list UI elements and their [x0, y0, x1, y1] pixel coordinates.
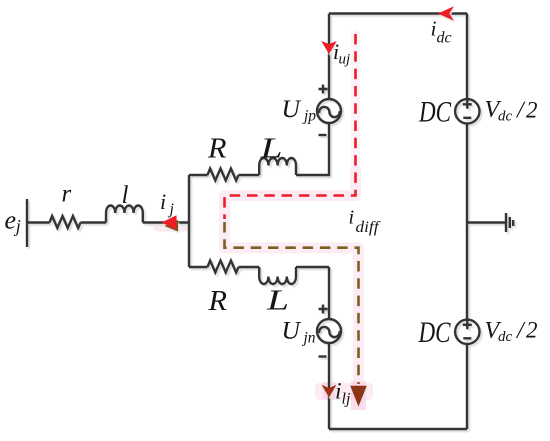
wire: right rail middle [466, 124, 468, 320]
DC source lower [455, 320, 479, 344]
svg-text:jn: jn [302, 330, 316, 347]
svg-text:i: i [160, 189, 166, 214]
AC source U_jp [317, 99, 341, 123]
svg-text:R: R [207, 134, 227, 165]
wire: r to l [81, 221, 107, 223]
wire: U_jn to bottom rail [328, 343, 330, 429]
wire: top rail [329, 12, 467, 14]
plus terminal mark of U_jn [319, 305, 328, 314]
current arrow i_diff at i_j node (brown, pointing left) [165, 220, 179, 232]
svg-text:L: L [259, 133, 282, 164]
svg-text:/: / [515, 98, 526, 124]
svg-text:j: j [14, 216, 21, 236]
wire: L upper to U_jp minus terminal [296, 123, 329, 175]
wire: U_jn up to lower arm [328, 267, 330, 319]
wire: right rail top down to DC source [466, 14, 468, 100]
wire: branch node to resistor R upper [189, 174, 208, 176]
wire: l to branch node [143, 221, 189, 223]
svg-text:dc: dc [498, 109, 513, 125]
svg-text:dc: dc [437, 30, 452, 47]
inductor L (lower arm) [259, 267, 296, 284]
svg-text:DC: DC [418, 316, 452, 349]
current arrow i_uj (pointing down) [321, 41, 336, 54]
svg-text:lj: lj [342, 391, 351, 408]
inductor L (upper arm) [259, 158, 296, 175]
svg-text:e: e [5, 206, 17, 235]
wire: L lower to lower arm corner [296, 266, 329, 268]
wire: branch node to resistor R lower [189, 266, 208, 268]
minus terminal mark of U_jp [319, 134, 327, 136]
svg-text:dc: dc [498, 329, 513, 345]
svg-text:U: U [282, 316, 302, 345]
minus terminal mark of U_jn [319, 355, 327, 357]
inductor l [106, 206, 143, 223]
current arrow i_dc (top rail, pointing left) [438, 6, 454, 20]
svg-text:DC: DC [418, 96, 452, 129]
wire: right rail bottom [466, 344, 468, 429]
AC source U_jn [317, 319, 341, 343]
dashed current path i_uj (red) [225, 34, 356, 219]
DC source upper [455, 99, 479, 123]
svg-text:/: / [515, 318, 526, 344]
highlight glow of i_uj / i_diff dashed paths [158, 34, 373, 410]
plus terminal mark of U_jp [319, 85, 328, 94]
svg-text:U: U [282, 94, 302, 123]
wire: branch vertical between upper and lower arms [188, 175, 190, 267]
svg-text:2: 2 [526, 318, 538, 343]
wire: bottom rail [329, 428, 467, 430]
current arrow of i_diff dashed end (brown, pointing down) [350, 386, 367, 407]
svg-text:j: j [168, 201, 175, 218]
svg-text:diff: diff [356, 219, 382, 236]
svg-text:R: R [207, 286, 227, 317]
wire: stub to ground [467, 221, 506, 223]
wire: U_jp to top rail [328, 14, 330, 100]
current arrow i_lj (dark red, pointing down) [322, 385, 337, 398]
svg-text:jp: jp [302, 108, 316, 125]
svg-text:l: l [122, 182, 129, 209]
wire: R to L upper [239, 174, 260, 176]
resistor r [50, 216, 81, 228]
resistor R (lower arm) [208, 261, 239, 273]
current arrow i_j (red, pointing left) [162, 215, 177, 229]
ground [506, 213, 513, 232]
svg-text:r: r [62, 180, 72, 207]
resistor R (upper arm) [208, 169, 239, 181]
svg-text:uj: uj [339, 52, 351, 68]
svg-text:L: L [266, 285, 289, 316]
svg-text:2: 2 [526, 97, 538, 122]
wire: e_j bar to resistor r [27, 221, 50, 223]
source terminal bar e_j [26, 199, 28, 247]
svg-text:i: i [349, 207, 355, 229]
wire: R to L lower [239, 266, 260, 268]
dashed current path i_diff (brown) [225, 222, 359, 384]
